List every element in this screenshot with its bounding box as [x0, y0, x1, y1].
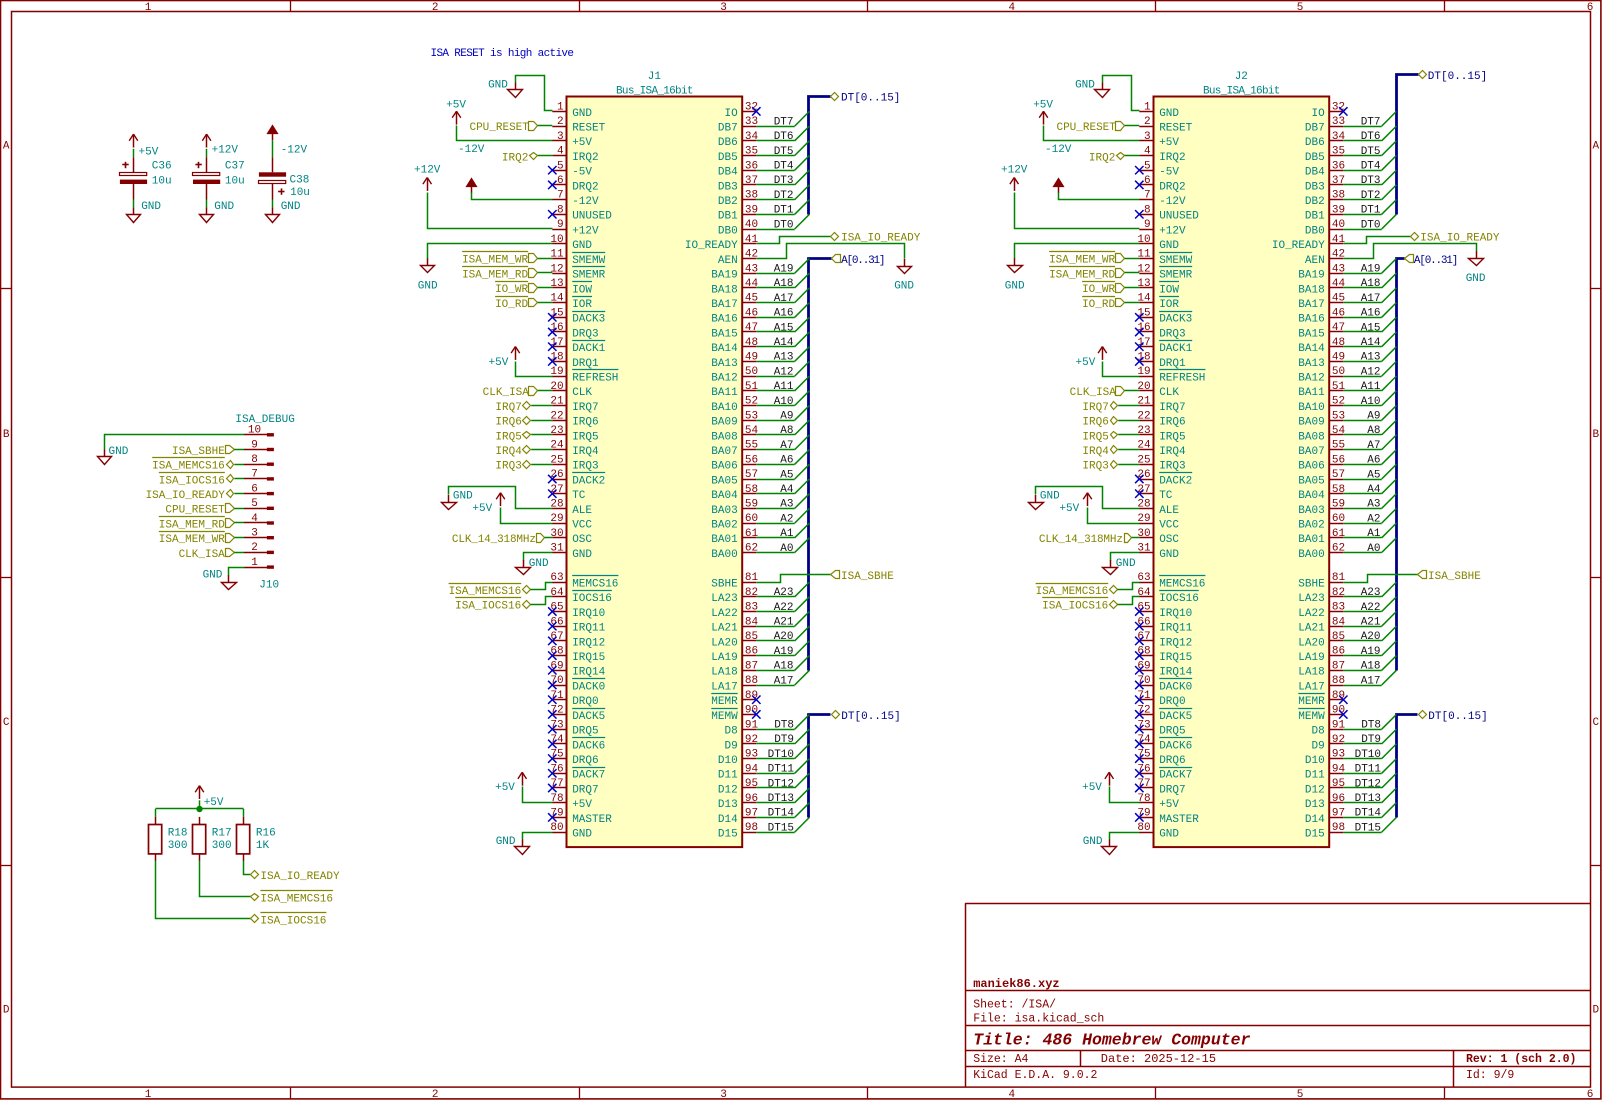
wire CLK_ISA to J1 pin20: [538, 390, 553, 392]
svg-text:93: 93: [745, 749, 758, 761]
svg-text:RESET: RESET: [572, 123, 605, 135]
svg-text:IO_WR: IO_WR: [495, 284, 528, 296]
svg-text:+5V: +5V: [495, 782, 515, 794]
svg-text:A5: A5: [1367, 469, 1380, 481]
svg-text:GND: GND: [488, 80, 508, 92]
ground below C38: [272, 207, 274, 214]
svg-text:A3: A3: [780, 499, 793, 511]
J2 pin 35 (DB5): [1329, 155, 1343, 157]
wire A0 from J2 pin62 to bus: [1343, 552, 1381, 554]
svg-text:+12V: +12V: [212, 144, 239, 156]
svg-text:D14: D14: [1305, 814, 1325, 826]
svg-text:23: 23: [1137, 425, 1150, 437]
J1 pin 46 (BA16): [742, 317, 756, 319]
ground at J10 pin10: [104, 450, 106, 457]
J2 pin 58 (BA04): [1329, 493, 1343, 495]
svg-text:A15: A15: [1361, 322, 1381, 334]
svg-text:6: 6: [251, 483, 258, 495]
J2 pin 1 (GND): [1139, 111, 1153, 113]
ground at J1 pin10: [427, 258, 429, 265]
svg-text:GND: GND: [1159, 549, 1179, 561]
svg-text:DRQ3: DRQ3: [572, 328, 598, 340]
svg-text:DB0: DB0: [718, 225, 738, 237]
J1 pin 93 (D10): [742, 758, 756, 760]
svg-text:DACK2: DACK2: [572, 475, 605, 487]
ground at J1 AEN: [904, 259, 906, 266]
power +5V at J1 pin19: [515, 347, 517, 360]
svg-text:GND: GND: [1159, 108, 1179, 120]
svg-text:4: 4: [1008, 1089, 1015, 1100]
svg-text:A14: A14: [774, 337, 794, 349]
svg-text:R17: R17: [212, 828, 232, 840]
svg-text:A17: A17: [1361, 675, 1381, 687]
svg-text:48: 48: [1332, 337, 1345, 349]
wire A10 from J1 pin52 to bus: [756, 405, 794, 407]
svg-text:C37: C37: [225, 160, 245, 172]
svg-text:BA00: BA00: [711, 549, 737, 561]
svg-text:A9: A9: [1367, 411, 1380, 423]
wire A23 from J2 pin82 to bus: [1343, 596, 1381, 598]
svg-text:IRQ14: IRQ14: [1159, 667, 1192, 679]
svg-text:86: 86: [1332, 646, 1345, 658]
svg-text:A2: A2: [1367, 513, 1380, 525]
J1 pin 90 (MEMW): [742, 714, 756, 716]
svg-text:SMEMR: SMEMR: [1159, 270, 1192, 282]
svg-text:35: 35: [1332, 146, 1345, 158]
J1 pin 66 (IRQ11): [552, 626, 566, 628]
svg-text:BA05: BA05: [1298, 475, 1324, 487]
svg-text:41: 41: [745, 234, 759, 246]
svg-text:-12V: -12V: [281, 144, 308, 156]
capacitor C38 symbol: [272, 157, 274, 172]
wire DT10 from J1 pin93 to bus: [756, 758, 794, 760]
J2 pin 33 (DB7): [1329, 126, 1343, 128]
J1 pin 17 (DACK1): [552, 346, 566, 348]
wire +5V to J2 pin3: [1044, 126, 1140, 141]
svg-text:+5V: +5V: [1033, 100, 1053, 112]
svg-text:BA03: BA03: [711, 505, 737, 517]
svg-text:50: 50: [745, 366, 758, 378]
svg-text:A18: A18: [774, 278, 794, 290]
svg-text:DT2: DT2: [1361, 190, 1381, 202]
svg-text:IO_RD: IO_RD: [495, 299, 528, 311]
svg-text:BA11: BA11: [1298, 387, 1325, 399]
svg-text:GND: GND: [453, 490, 473, 502]
J1 pin 70 (DACK0): [552, 685, 566, 687]
svg-text:46: 46: [1332, 307, 1345, 319]
svg-text:DT9: DT9: [1361, 734, 1381, 746]
ground at J2 pin1: [1102, 83, 1104, 90]
wire DT8 from J2 pin91 to bus: [1343, 729, 1381, 731]
wire DT9 from J1 pin92 to bus: [756, 743, 794, 745]
svg-text:BA18: BA18: [711, 284, 737, 296]
wire IRQ6 to J1 pin22: [531, 420, 552, 422]
J2 pin 65 (IRQ10): [1139, 611, 1153, 613]
J1 pin 24 (IRQ4): [552, 449, 566, 451]
svg-text:MEMR: MEMR: [1298, 696, 1325, 708]
J2 pin 74 (DACK6): [1139, 743, 1153, 745]
svg-text:ISA_MEMCS16: ISA_MEMCS16: [449, 586, 522, 598]
wire A16 from J1 pin46 to bus: [756, 317, 794, 319]
capacitor C36 symbol: [133, 157, 135, 172]
svg-text:1: 1: [145, 2, 152, 14]
wire A13 from J1 pin49 to bus: [756, 361, 794, 363]
svg-text:ISA RESET is high active: ISA RESET is high active: [431, 48, 574, 60]
J1 pin 23 (IRQ5): [552, 434, 566, 436]
svg-text:Title: 486 Homebrew Computer: Title: 486 Homebrew Computer: [973, 1030, 1250, 1049]
svg-text:A16: A16: [774, 308, 794, 320]
J10 pin 6: [244, 493, 268, 495]
J2 pin 22 (IRQ6): [1139, 420, 1153, 422]
svg-text:IO: IO: [1311, 108, 1325, 120]
svg-text:CLK_ISA: CLK_ISA: [1070, 387, 1117, 399]
J10 pin 9: [244, 449, 268, 451]
power +5V at J2 pin19: [1102, 347, 1104, 360]
svg-text:MEMR: MEMR: [711, 696, 738, 708]
svg-text:DB7: DB7: [718, 123, 738, 135]
svg-text:IO_WR: IO_WR: [1082, 284, 1115, 296]
wire DT12 from J1 pin95 to bus: [756, 787, 794, 789]
J2 pin 48 (BA14): [1329, 346, 1343, 348]
svg-text:DT7: DT7: [774, 116, 794, 128]
wire J10 pin1 to GND: [229, 568, 245, 576]
svg-text:10u: 10u: [225, 175, 245, 187]
wire DT6 from J2 pin34 to bus: [1343, 140, 1381, 142]
svg-text:DB4: DB4: [1305, 167, 1325, 179]
wire A13 from J2 pin49 to bus: [1343, 361, 1381, 363]
svg-text:6: 6: [1144, 175, 1151, 187]
svg-text:DT11: DT11: [1355, 764, 1382, 776]
wire A18 from J1 pin87 to bus: [756, 670, 794, 672]
power +12V at J2 pin9: [1014, 178, 1016, 191]
wire ISA_MEM_RD to J10 pin4: [234, 522, 244, 524]
svg-text:CLK_ISA: CLK_ISA: [179, 549, 226, 561]
svg-text:57: 57: [1332, 469, 1345, 481]
resistor R18: [155, 817, 157, 824]
svg-text:IRQ2: IRQ2: [1089, 152, 1115, 164]
svg-text:+5V: +5V: [1082, 782, 1102, 794]
svg-text:35: 35: [745, 146, 758, 158]
J2 pin 60 (BA02): [1329, 523, 1343, 525]
svg-text:GND: GND: [572, 829, 592, 841]
J1 pin 83 (LA22): [742, 611, 756, 613]
svg-text:42: 42: [745, 249, 758, 261]
svg-text:20: 20: [550, 381, 563, 393]
power +5V at resistors: [199, 786, 201, 799]
svg-text:ALE: ALE: [572, 505, 592, 517]
J2 pin 85 (LA20): [1329, 640, 1343, 642]
svg-text:GND: GND: [572, 240, 592, 252]
J10 pin 7: [244, 478, 268, 480]
wire A8 from J2 pin54 to bus: [1343, 434, 1381, 436]
ground at J2 pin28: [1035, 495, 1037, 502]
wire A6 from J1 pin56 to bus: [756, 464, 794, 466]
svg-text:A11: A11: [774, 381, 794, 393]
J2 pin 10 (GND): [1139, 243, 1153, 245]
wire -12V to J2 pin7: [1059, 193, 1140, 200]
J2 pin 95 (D12): [1329, 787, 1343, 789]
svg-text:A8: A8: [780, 425, 793, 437]
wire ISA_IO_READY from J2 pin41: [1344, 237, 1411, 244]
svg-text:33: 33: [745, 116, 758, 128]
svg-text:4: 4: [557, 146, 564, 158]
svg-text:LA19: LA19: [711, 652, 737, 664]
svg-text:LA18: LA18: [1298, 667, 1324, 679]
hier label DT[0..15] top at J1: [831, 93, 839, 101]
svg-text:D15: D15: [1305, 829, 1325, 841]
svg-text:BA14: BA14: [711, 343, 738, 355]
svg-text:-5V: -5V: [1159, 167, 1179, 179]
wire DT11 from J2 pin94 to bus: [1343, 773, 1381, 775]
svg-text:BA10: BA10: [711, 402, 737, 414]
svg-text:DACK5: DACK5: [572, 711, 605, 723]
svg-text:CLK_14_318MHz: CLK_14_318MHz: [452, 534, 536, 546]
svg-text:D12: D12: [718, 784, 738, 796]
svg-text:30: 30: [550, 528, 563, 540]
wire DT6 from J1 pin34 to bus: [756, 140, 794, 142]
wire +5V to J2 pin78: [1110, 787, 1140, 803]
svg-text:22: 22: [550, 410, 563, 422]
svg-text:A21: A21: [1361, 617, 1381, 629]
svg-text:30: 30: [1137, 528, 1150, 540]
svg-text:GND: GND: [496, 836, 516, 848]
J1 pin 57 (BA05): [742, 479, 756, 481]
svg-text:DT0: DT0: [774, 219, 794, 231]
svg-text:95: 95: [745, 778, 758, 790]
svg-text:93: 93: [1332, 749, 1345, 761]
svg-text:BA15: BA15: [711, 328, 737, 340]
J1 pin 74 (DACK6): [552, 743, 566, 745]
svg-text:A8: A8: [1367, 425, 1380, 437]
svg-text:97: 97: [1332, 808, 1345, 820]
svg-text:D11: D11: [718, 770, 738, 782]
J2 pin 91 (D8): [1329, 729, 1343, 731]
svg-text:GND: GND: [1083, 836, 1103, 848]
svg-text:ISA_IO_READY: ISA_IO_READY: [260, 871, 340, 883]
J2 pin 15 (DACK3): [1139, 317, 1153, 319]
hier label DT[0..15] bottom at J1: [832, 711, 840, 719]
svg-text:DACK2: DACK2: [1159, 475, 1192, 487]
svg-text:DT[0..15]: DT[0..15]: [1428, 71, 1487, 83]
svg-text:46: 46: [745, 307, 758, 319]
svg-text:IRQ6: IRQ6: [572, 417, 598, 429]
wire A5 from J1 pin57 to bus: [756, 479, 794, 481]
svg-text:A6: A6: [1367, 455, 1380, 467]
svg-text:+5V: +5V: [139, 146, 159, 158]
wire DT4 from J2 pin36 to bus: [1343, 170, 1381, 172]
svg-text:56: 56: [745, 454, 758, 466]
wire ISA_MEM_RD to J1 pin12: [538, 272, 553, 274]
J2 pin 6 (DRQ2): [1139, 184, 1153, 186]
wire IRQ2 to J2 pin4: [1125, 155, 1140, 157]
wire A19 from J1 pin43 to bus: [756, 273, 794, 275]
svg-text:A0: A0: [1367, 543, 1380, 555]
bus A[0..31] at J2: [1397, 259, 1405, 671]
svg-text:ISA_IOCS16: ISA_IOCS16: [260, 915, 326, 927]
hier label ISA_IOCS16 below resistors: [251, 915, 259, 923]
wire A16 from J2 pin46 to bus: [1343, 317, 1381, 319]
wire A20 from J2 pin85 to bus: [1343, 640, 1381, 642]
wire IRQ2 to J1 pin4: [538, 155, 553, 157]
svg-text:2: 2: [557, 116, 564, 128]
svg-text:21: 21: [1137, 396, 1151, 408]
J2 pin 13 (IOW): [1139, 287, 1153, 289]
svg-text:52: 52: [1332, 396, 1345, 408]
svg-text:A13: A13: [774, 352, 794, 364]
svg-text:D8: D8: [1311, 726, 1324, 738]
J2 pin 54 (BA08): [1329, 434, 1343, 436]
svg-text:43: 43: [745, 263, 758, 275]
svg-text:IRQ15: IRQ15: [1159, 652, 1192, 664]
svg-text:Sheet: /ISA/: Sheet: /ISA/: [973, 999, 1056, 1012]
svg-text:BA16: BA16: [1298, 314, 1324, 326]
J1 pin 42 (AEN): [742, 258, 756, 260]
svg-text:6: 6: [557, 175, 564, 187]
ground at J1 pin31: [523, 560, 525, 567]
svg-text:A18: A18: [1361, 278, 1381, 290]
svg-text:IRQ11: IRQ11: [1159, 623, 1192, 635]
svg-text:DRQ5: DRQ5: [572, 726, 598, 738]
svg-text:BA13: BA13: [711, 358, 737, 370]
svg-text:LA20: LA20: [711, 637, 737, 649]
power +12V at C37: [206, 134, 208, 147]
svg-text:6: 6: [1587, 1089, 1594, 1100]
svg-text:MEMW: MEMW: [1298, 711, 1325, 723]
J2 pin 82 (LA23): [1329, 596, 1343, 598]
J2 pin 56 (BA06): [1329, 464, 1343, 466]
svg-text:DACK3: DACK3: [572, 314, 605, 326]
wire DT2 from J2 pin38 to bus: [1343, 199, 1381, 201]
svg-text:A19: A19: [1361, 646, 1381, 658]
svg-text:A10: A10: [1361, 396, 1381, 408]
svg-text:BA01: BA01: [711, 534, 738, 546]
svg-text:BA07: BA07: [711, 446, 737, 458]
svg-text:96: 96: [1332, 793, 1345, 805]
J1 pin 20 (CLK): [552, 390, 566, 392]
J1 pin 13 (IOW): [552, 287, 566, 289]
J1 pin 77 (DRQ7): [552, 787, 566, 789]
ground below C36: [133, 207, 135, 214]
svg-text:ISA_MEM_WR: ISA_MEM_WR: [159, 534, 225, 546]
svg-text:Rev: 1 (sch 2.0): Rev: 1 (sch 2.0): [1466, 1053, 1576, 1066]
wire ISA_IOCS16 from resistor: [156, 861, 251, 919]
junction at +5V rail: [196, 806, 202, 812]
J1 pin 1 (GND): [552, 111, 566, 113]
wire A2 from J2 pin60 to bus: [1343, 523, 1381, 525]
svg-text:DRQ2: DRQ2: [572, 181, 598, 193]
capacitor C38 polarity +: [278, 191, 284, 193]
J2 pin 25 (IRQ3): [1139, 464, 1153, 466]
J2 pin 70 (DACK0): [1139, 685, 1153, 687]
svg-text:ISA_IO_READY: ISA_IO_READY: [841, 233, 921, 245]
J1 pin 4 (IRQ2): [552, 155, 566, 157]
J2 pin 52 (BA10): [1329, 405, 1343, 407]
wire ISA_MEM_WR to J1 pin11: [538, 258, 553, 260]
wire ISA_IO_READY from resistor: [244, 861, 251, 875]
svg-text:57: 57: [745, 469, 758, 481]
svg-text:36: 36: [745, 160, 758, 172]
svg-text:8: 8: [251, 454, 258, 466]
svg-text:DB3: DB3: [1305, 181, 1325, 193]
J2 pin 94 (D11): [1329, 773, 1343, 775]
J1 pin 75 (DRQ6): [552, 758, 566, 760]
svg-text:C36: C36: [152, 160, 172, 172]
svg-text:RESET: RESET: [1159, 123, 1192, 135]
J1 pin 63 (MEMCS16): [552, 582, 566, 584]
svg-text:GND: GND: [109, 446, 129, 458]
wire +5V rail: [199, 800, 201, 809]
svg-text:IRQ7: IRQ7: [495, 402, 521, 414]
svg-text:IRQ5: IRQ5: [1082, 431, 1108, 443]
wire A18 from J1 pin44 to bus: [756, 287, 794, 289]
ground at J2 pin80: [1109, 840, 1111, 847]
svg-text:CLK_14_318MHz: CLK_14_318MHz: [1039, 534, 1123, 546]
svg-text:5: 5: [251, 498, 258, 510]
svg-text:DT1: DT1: [1361, 205, 1381, 217]
svg-text:BA17: BA17: [711, 299, 737, 311]
J2 pin 8 (UNUSED): [1139, 214, 1153, 216]
wire IRQ4 to J2 pin24: [1118, 449, 1139, 451]
wire +5V to C36: [133, 149, 135, 158]
J2 pin 71 (DRQ0): [1139, 699, 1153, 701]
wire CPU_RESET to J1 pin2: [538, 125, 553, 127]
svg-text:60: 60: [1332, 513, 1345, 525]
wire ISA_IOCS16 to J10 pin7: [234, 478, 244, 480]
svg-text:25: 25: [550, 454, 563, 466]
svg-text:MEMCS16: MEMCS16: [572, 579, 618, 591]
svg-text:A17: A17: [774, 675, 794, 687]
J2 pin 61 (BA01): [1329, 537, 1343, 539]
svg-text:DT4: DT4: [1361, 161, 1381, 173]
svg-text:DRQ5: DRQ5: [1159, 726, 1185, 738]
wire ISA_MEMCS16 to J10 pin8: [234, 464, 244, 466]
power -12V at J1 pin7: [467, 179, 477, 187]
wire DT11 from J1 pin94 to bus: [756, 773, 794, 775]
svg-text:REFRESH: REFRESH: [572, 373, 618, 385]
J2 pin 57 (BA05): [1329, 479, 1343, 481]
svg-text:6: 6: [1587, 2, 1594, 14]
wire DT1 from J1 pin39 to bus: [756, 214, 794, 216]
svg-text:A20: A20: [774, 631, 794, 643]
svg-text:+5V: +5V: [446, 100, 466, 112]
wire A0 from J1 pin62 to bus: [756, 552, 794, 554]
bus DT[0..15] top at J1: [809, 97, 831, 215]
svg-text:DB3: DB3: [718, 181, 738, 193]
svg-text:IOCS16: IOCS16: [1159, 593, 1199, 605]
J1 pin 49 (BA13): [742, 361, 756, 363]
J10 pin 10: [244, 434, 268, 436]
svg-text:21: 21: [550, 396, 564, 408]
svg-text:37: 37: [745, 175, 758, 187]
J10 pin 1: [244, 567, 268, 569]
wire A9 from J1 pin53 to bus: [756, 420, 794, 422]
svg-text:BA02: BA02: [1298, 520, 1324, 532]
svg-text:IRQ4: IRQ4: [495, 446, 522, 458]
svg-text:DT[0..15]: DT[0..15]: [1428, 711, 1487, 723]
svg-text:DT4: DT4: [774, 161, 794, 173]
svg-text:DT3: DT3: [1361, 175, 1381, 187]
svg-text:maniek86.xyz: maniek86.xyz: [973, 977, 1059, 991]
svg-text:IRQ10: IRQ10: [572, 608, 605, 620]
svg-text:ISA_IOCS16: ISA_IOCS16: [455, 601, 521, 613]
J10 pin 8: [244, 464, 268, 466]
J1 pin 37 (DB3): [742, 184, 756, 186]
svg-text:3: 3: [1144, 131, 1151, 143]
svg-text:A17: A17: [774, 293, 794, 305]
svg-text:ISA_MEM_RD: ISA_MEM_RD: [462, 269, 528, 281]
svg-text:SMEMW: SMEMW: [572, 255, 605, 267]
wire A1 from J1 pin61 to bus: [756, 537, 794, 539]
